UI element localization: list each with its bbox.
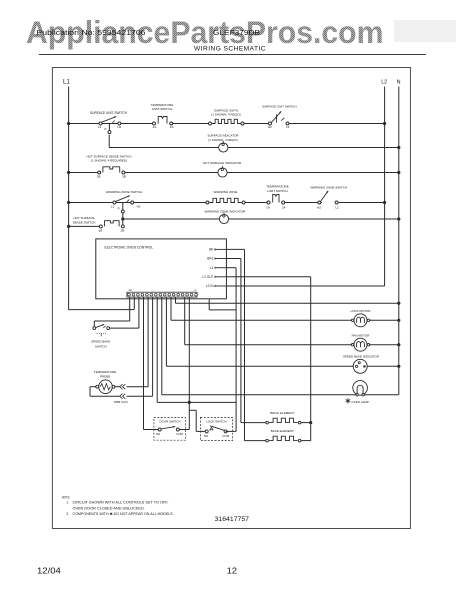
svg-text:SPEED BAKE: SPEED BAKE	[91, 340, 110, 344]
svg-text:FAN MOTOR: FAN MOTOR	[352, 333, 371, 337]
wire BRL pin to broil element drop	[226, 258, 241, 260]
wire strip pin to door switch NO	[143, 297, 145, 429]
wire limit switch to surface unit element	[173, 123, 209, 125]
svg-text:N: N	[397, 80, 401, 86]
svg-text:2B: 2B	[121, 228, 125, 232]
svg-text:NO: NO	[204, 434, 209, 438]
svg-text:L2: L2	[336, 205, 340, 209]
svg-text:LOCK SWITCH: LOCK SWITCH	[206, 419, 226, 423]
wire switch to L2 bus	[338, 202, 385, 204]
wire P contact drop to indicator row	[108, 135, 110, 148]
svg-text:L2 IN: L2 IN	[206, 284, 214, 288]
wire L2 OUT pin to elements drop	[226, 276, 310, 278]
svg-text:2A: 2A	[153, 125, 157, 129]
wire hot surface indicator to N bus	[227, 172, 399, 174]
svg-text:L1: L1	[63, 79, 70, 86]
wire P drop and 2B rise to indicator row	[121, 217, 124, 220]
wire L1 to hot surface sense switch row4	[69, 225, 100, 227]
wire L2 IN pin to L2 bus	[226, 285, 384, 287]
schematic frame	[52, 68, 410, 529]
svg-text:14: 14	[129, 288, 133, 292]
wire L2 bus	[384, 87, 386, 287]
svg-text:HOT SURFACE INDICATOR: HOT SURFACE INDICATOR	[203, 161, 242, 165]
switch door switch	[154, 418, 186, 441]
svg-text:H2: H2	[268, 125, 272, 129]
wire fan motor to N bus	[370, 344, 399, 346]
wire L1 pin drop to light switch	[226, 267, 236, 269]
wire speed bake indicator to N bus	[367, 365, 399, 367]
svg-text:HOT SURFACE: HOT SURFACE	[73, 216, 94, 220]
wire probe right terminal	[115, 386, 120, 388]
svg-text:WARMING ZONE SWITCH: WARMING ZONE SWITCH	[311, 185, 348, 189]
wire light switch NO branch	[196, 430, 205, 432]
wire N bus	[398, 87, 400, 395]
wire element to temperature limit switch	[245, 202, 267, 204]
switch speed bake switch	[96, 324, 104, 327]
svg-text:LOCK MOTOR: LOCK MOTOR	[350, 309, 371, 313]
svg-text:SURFACE UNIT SWITCH: SURFACE UNIT SWITCH	[262, 105, 297, 109]
wire broil element to L2 OUT drop	[301, 422, 311, 424]
wire lock motor to N bus	[370, 319, 399, 321]
svg-text:COM: COM	[222, 434, 229, 438]
svg-text:OVEN DOOR CLOSED AND UNLOCKED.: OVEN DOOR CLOSED AND UNLOCKED.	[73, 506, 145, 510]
svg-text:PROBE: PROBE	[100, 375, 111, 379]
wire BK drop to bake element	[245, 440, 266, 442]
svg-text:BRL: BRL	[207, 257, 213, 261]
svg-text:NO: NO	[156, 432, 161, 436]
svg-text:P: P	[104, 127, 106, 131]
ic electronic oven control box	[96, 239, 227, 299]
connector strip on electronic oven control	[127, 292, 197, 297]
svg-text:COMPONENTS WITH ✱ DO NOT APP: COMPONENTS WITH ✱ DO NOT APPEAR ON ALL M…	[73, 512, 174, 516]
svg-text:1B: 1B	[97, 174, 101, 178]
wire strip pin to fan motor row	[184, 297, 186, 345]
svg-text:WARMING ZONE INDICATOR: WARMING ZONE INDICATOR	[205, 209, 247, 213]
wire strip pin to N bus junction	[175, 297, 177, 303]
wire element to right surface unit switch	[244, 123, 269, 125]
wire switch to L2 bus	[289, 123, 385, 125]
wire L1 drop to light switch COM	[226, 430, 237, 432]
svg-text:SPEED BAKE INDICATOR: SPEED BAKE INDICATOR	[343, 355, 380, 359]
wire BK pin to bake element drop	[226, 248, 244, 250]
lamp oven lamp	[353, 381, 368, 396]
svg-text:(1 SHOWN, 4 REQ'D): (1 SHOWN, 4 REQ'D)	[211, 113, 240, 117]
svg-text:WIRING SCHEMATIC: WIRING SCHEMATIC	[194, 45, 266, 52]
wire bake element to L2 OUT drop	[301, 440, 311, 442]
label oven lamp with asterisk	[346, 398, 351, 403]
wire auxiliary pin below EOC	[208, 299, 210, 310]
wire to warming zone indicator	[123, 218, 220, 220]
svg-text:L2: L2	[381, 80, 387, 86]
wire strip pin to door-light common line	[156, 297, 158, 402]
svg-text:12: 12	[227, 566, 238, 576]
svg-text:OVEN LAMP: OVEN LAMP	[351, 400, 369, 404]
svg-text:PRB CON: PRB CON	[114, 400, 128, 404]
wire strip pin to speed bake switch left	[129, 297, 131, 321]
svg-text:LIMIT SWITCH: LIMIT SWITCH	[152, 107, 172, 111]
wire strip pin to oven lamp row	[161, 297, 163, 395]
wire BRL drop to broil element	[241, 422, 266, 424]
svg-text:CIRCUIT SHOWN WITH ALL CONTROL: CIRCUIT SHOWN WITH ALL CONTROLS SET TO O…	[73, 500, 169, 504]
wire L1 bus	[68, 87, 70, 310]
svg-text:WARMING ZONE: WARMING ZONE	[214, 190, 238, 194]
title rule	[39, 54, 426, 56]
wire strip pin to lock motor row	[170, 297, 172, 320]
svg-text:SWITCH: SWITCH	[95, 344, 107, 348]
wire strip pin to L1 bus feed	[133, 297, 135, 310]
switch lock switch	[200, 417, 232, 440]
wire strip pin to speed bake indicator row	[165, 297, 167, 366]
wire oven lamp to N bus corner	[364, 394, 399, 396]
svg-text:2A: 2A	[282, 205, 286, 209]
svg-text:COM: COM	[176, 432, 183, 436]
svg-text:P: P	[118, 206, 120, 210]
wire L1 to warming zone switch	[69, 202, 206, 204]
svg-text:L1: L1	[111, 205, 115, 209]
connector PRB CON chevrons	[123, 384, 126, 389]
svg-text:GLEF379DB: GLEF379DB	[213, 30, 260, 37]
svg-text:H1: H1	[117, 125, 121, 129]
svg-text:L2 OUT: L2 OUT	[202, 275, 213, 279]
wire strip pin to temperature probe	[147, 297, 149, 387]
svg-text:12/04: 12/04	[37, 566, 61, 576]
svg-text:WARMING ZONE SWITCH: WARMING ZONE SWITCH	[106, 190, 143, 194]
svg-text:1A: 1A	[266, 205, 270, 209]
wire probe left terminal wrap	[90, 386, 96, 388]
wire strip pin to speed bake switch right	[138, 297, 140, 328]
svg-text:Publication No: 5995421706: Publication No: 5995421706	[37, 28, 146, 37]
svg-text:H1: H1	[137, 205, 141, 209]
svg-text:L1: L1	[210, 266, 214, 270]
svg-text:2B: 2B	[122, 174, 126, 178]
svg-text:NOTES:: NOTES:	[62, 496, 70, 500]
wire strip pin to temperature probe return	[152, 297, 154, 396]
svg-text:BROIL ELEMENT: BROIL ELEMENT	[270, 411, 294, 415]
wire L1 to hot surface sense switch	[69, 172, 100, 174]
wire warming zone indicator to N bus	[229, 218, 399, 220]
svg-text:H2: H2	[317, 205, 321, 209]
svg-text:1A: 1A	[170, 125, 174, 129]
svg-text:316417757: 316417757	[215, 516, 250, 523]
svg-text:SURFACE UNIT SWITCH: SURFACE UNIT SWITCH	[90, 111, 127, 115]
wire L1 to surface unit switch	[69, 123, 153, 125]
svg-text:TEMPERATURE: TEMPERATURE	[94, 370, 116, 374]
svg-text:SENSE SWITCH: SENSE SWITCH	[73, 221, 96, 225]
svg-text:LIMIT SWITCH: LIMIT SWITCH	[267, 189, 287, 193]
wire limit switch to warming zone switch right	[285, 202, 322, 204]
svg-text:1.: 1.	[66, 500, 69, 504]
svg-text:1B: 1B	[98, 228, 102, 232]
svg-text:L2: L2	[286, 125, 290, 129]
svg-text:2.: 2.	[66, 512, 69, 516]
svg-text:BAKE ELEMENT: BAKE ELEMENT	[271, 429, 294, 433]
svg-text:(1 SHOWN, 4 REQUIRED): (1 SHOWN, 4 REQUIRED)	[91, 159, 127, 163]
wire strip pin to door switch COM	[188, 297, 190, 429]
svg-text:L1: L1	[98, 125, 102, 129]
wire surface indicator to N bus	[228, 147, 399, 149]
svg-text:DOOR SWITCH: DOOR SWITCH	[160, 419, 181, 423]
wire switch to hot surface indicator	[125, 172, 218, 174]
svg-text:ELECTRONIC OVEN CONTROL: ELECTRONIC OVEN CONTROL	[105, 246, 154, 250]
